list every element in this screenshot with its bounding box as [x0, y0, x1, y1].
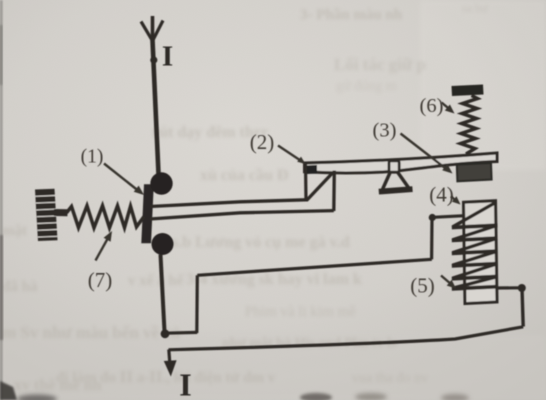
svg-text:vua tha đo nv: vua tha đo nv — [352, 371, 428, 386]
svg-text:I: I — [162, 41, 173, 73]
svg-text:xv thê mề nh: xv thê mề nh — [14, 377, 102, 394]
svg-text:(1): (1) — [81, 147, 104, 168]
svg-text:(6): (6) — [420, 95, 444, 117]
svg-text:m Sv như màu bến về củ: m Sv như màu bến về củ — [2, 323, 180, 342]
svg-text:s.b Lương vỏ cụ me gà v.d: s.b Lương vỏ cụ me gà v.d — [172, 234, 350, 251]
svg-text:I: I — [179, 367, 191, 400]
svg-text:(4): (4) — [429, 183, 454, 207]
svg-text:sa bư: sa bư — [462, 1, 488, 15]
svg-text:(7): (7) — [88, 268, 113, 292]
svg-text:Phim và li kim mê: Phim và li kim mê — [245, 304, 356, 320]
svg-text:(5): (5) — [410, 274, 435, 298]
svg-text:(2): (2) — [250, 130, 275, 154]
svg-text:Lối tác giữ p: Lối tác giữ p — [334, 55, 426, 74]
svg-text:gử đúng m: gử đúng m — [336, 79, 397, 94]
svg-text:v xế a hế: v xế a hế — [128, 273, 185, 289]
svg-text:đã hà: đã hà — [2, 279, 38, 295]
svg-text:mật: mật — [2, 223, 27, 239]
svg-text:xù của cầu Đ: xù của cầu Đ — [200, 167, 288, 184]
svg-text:(3): (3) — [373, 120, 397, 142]
svg-text:3- Phần màu nh: 3- Phần màu nh — [300, 7, 403, 23]
